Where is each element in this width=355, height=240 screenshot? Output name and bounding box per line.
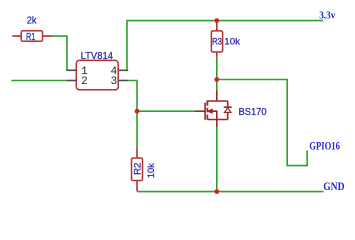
- junction node gate / R2: [135, 109, 140, 114]
- pin 1 stub: [66, 69, 76, 71]
- wire pin3 to gate node: [128, 81, 137, 149]
- svg-text:2k: 2k: [27, 16, 38, 27]
- svg-text:GPIO16: GPIO16: [309, 138, 340, 152]
- svg-text:R3: R3: [212, 36, 222, 47]
- transistor Q1 BS170 drain stub: [216, 91, 218, 102]
- body diode D1 triangle: [225, 108, 231, 113]
- transistor Q1 source stub: [216, 120, 218, 128]
- wire source to GND: [216, 127, 218, 192]
- resistor R3: [211, 31, 222, 52]
- junction node drain: [214, 77, 219, 82]
- wire pin2 net from left: [11, 80, 66, 82]
- transistor Q1 gate stub: [195, 110, 205, 112]
- svg-text:3: 3: [110, 76, 117, 88]
- wire GND rail: [137, 191, 324, 193]
- svg-text:10k: 10k: [224, 36, 240, 47]
- resistor R3 pin stubs: [216, 21, 218, 58]
- svg-text:BS170: BS170: [239, 107, 268, 118]
- transistor Q1 source arm: [207, 119, 227, 121]
- svg-text:10k: 10k: [146, 163, 157, 178]
- svg-text:3.3v: 3.3v: [319, 10, 336, 22]
- wire drain node down: [216, 80, 218, 91]
- junction node source / GND: [214, 189, 219, 194]
- transistor Q1 gate plate: [204, 103, 206, 120]
- transistor Q1 bulk line: [208, 111, 217, 119]
- resistor R1 pin stubs: [12, 35, 51, 37]
- wire pin4 to 3.3v rail: [127, 21, 323, 71]
- wire R1 output to pin1: [52, 36, 68, 70]
- svg-text:GND: GND: [323, 179, 345, 193]
- resistor R1: [21, 31, 42, 42]
- pin 2 stub: [66, 80, 76, 82]
- resistor R2: [132, 158, 143, 181]
- svg-text:2: 2: [81, 76, 88, 88]
- pin 4 stub: [118, 69, 128, 71]
- transistor Q1 channel segments: [206, 100, 208, 119]
- junction node top rail / R3: [214, 18, 219, 23]
- body diode D1: [224, 101, 232, 120]
- svg-text:R2: R2: [132, 163, 143, 175]
- svg-text:LTV814: LTV814: [81, 51, 114, 62]
- wire drain node to GPIO16: [217, 80, 307, 166]
- resistor R2 pin stubs: [136, 148, 138, 191]
- wire gate node to gate: [137, 110, 195, 112]
- transistor Q1 drain arm: [207, 100, 227, 102]
- transistor Q1 bulk arrow: [208, 109, 213, 113]
- pin 3 stub: [118, 80, 128, 82]
- svg-text:R1: R1: [26, 32, 36, 43]
- op-amp U1 optocoupler LTV814 body: [76, 60, 118, 89]
- wire R3 bottom to drain node: [216, 57, 218, 79]
